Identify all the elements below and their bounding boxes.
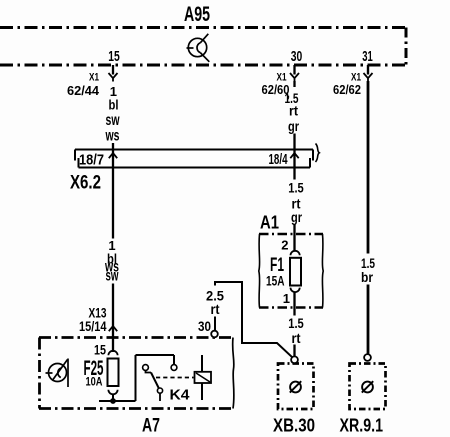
- svg-text:30: 30: [291, 48, 303, 65]
- svg-text:X1: X1: [277, 72, 287, 84]
- svg-text:sw: sw: [106, 112, 120, 129]
- svg-text:18/4: 18/4: [269, 151, 288, 168]
- svg-text:sw: sw: [106, 268, 119, 285]
- svg-text:1.5: 1.5: [288, 316, 304, 331]
- svg-text:15: 15: [108, 48, 120, 65]
- svg-text:gr: gr: [288, 119, 300, 134]
- svg-text:1.5: 1.5: [288, 181, 304, 196]
- svg-text:18/7: 18/7: [79, 152, 104, 169]
- svg-text:A7: A7: [142, 416, 160, 437]
- svg-text:15: 15: [94, 343, 106, 358]
- svg-text:X6.2: X6.2: [70, 173, 101, 194]
- svg-text:10A: 10A: [86, 377, 103, 389]
- svg-text:1: 1: [283, 291, 290, 306]
- svg-text:X1: X1: [89, 72, 99, 84]
- svg-text:br: br: [361, 270, 374, 285]
- svg-text:bl: bl: [109, 97, 119, 113]
- svg-text:K4: K4: [170, 388, 190, 404]
- svg-text:XB.30: XB.30: [273, 415, 315, 436]
- svg-text:rt: rt: [289, 104, 298, 119]
- svg-text:31: 31: [362, 49, 373, 65]
- svg-text:2: 2: [281, 238, 288, 253]
- svg-text:62/62: 62/62: [333, 83, 361, 97]
- svg-text:XR.9.1: XR.9.1: [340, 415, 384, 436]
- svg-text:A95: A95: [184, 3, 210, 26]
- svg-text:ws: ws: [105, 128, 120, 145]
- svg-text:62/44: 62/44: [67, 84, 99, 98]
- svg-text:15A: 15A: [266, 274, 285, 289]
- svg-text:gr: gr: [291, 210, 303, 225]
- svg-text:15/14: 15/14: [79, 319, 107, 334]
- svg-text:A1: A1: [260, 213, 279, 233]
- svg-text:X1: X1: [351, 72, 361, 84]
- svg-text:30: 30: [198, 319, 211, 334]
- svg-text:1.5: 1.5: [361, 256, 375, 271]
- svg-text:rt: rt: [292, 331, 301, 346]
- svg-text:rt: rt: [211, 302, 220, 317]
